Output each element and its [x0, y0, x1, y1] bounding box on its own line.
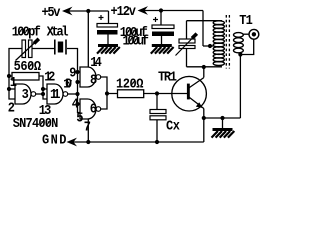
svg-text:GND: GND [42, 132, 67, 148]
resistor R2 120 ohm [118, 90, 144, 98]
junction collector at tank [202, 65, 206, 69]
junction pin 1 [7, 87, 11, 91]
svg-text:T1: T1 [239, 12, 253, 28]
svg-text:8: 8 [90, 72, 97, 88]
wire Cx top lead [156, 94, 158, 110]
wire +5v rail [66, 10, 109, 12]
svg-text:14: 14 [90, 54, 102, 70]
junction gate B out [75, 92, 79, 96]
wire +12v drop to C2 [160, 11, 162, 26]
junction gate outputs to R2 [105, 91, 109, 95]
wire +5v rail drop to C1 [108, 11, 110, 24]
junction +12v / C2 [159, 8, 163, 12]
capacitor C4 tank trimmer [176, 34, 197, 56]
wire Cx bottom lead [156, 120, 158, 143]
wire secondary top to jack [243, 33, 250, 35]
capacitor C3 100pf variable [16, 39, 39, 61]
slashed zeros overlay [19, 28, 138, 126]
junction pin 12 [41, 87, 45, 91]
svg-text:+12v: +12v [111, 4, 137, 20]
wire pin 14 supply drop [87, 11, 89, 67]
svg-text:Cx: Cx [166, 118, 180, 134]
svg-text:SN7400N: SN7400N [13, 116, 59, 132]
junction Cx at GND rail [155, 140, 159, 144]
wire TR1 emitter down to rail [203, 118, 205, 142]
wire gate C output [101, 77, 118, 94]
wire GND rail [72, 141, 204, 143]
svg-text:TR1: TR1 [158, 69, 177, 85]
ground under C2 [151, 44, 174, 54]
junction pin 4 [75, 102, 79, 106]
svg-text:5: 5 [76, 110, 83, 126]
transistor TR1 NPN [172, 76, 207, 118]
arrow +12v supply [138, 6, 149, 15]
junction coil tap [208, 44, 212, 48]
svg-text:+5v: +5v [42, 5, 61, 21]
svg-text:10: 10 [63, 76, 72, 92]
capacitor C2 100uf electrolytic [152, 17, 174, 36]
wire crystal feedback node (node B) [67, 49, 80, 113]
wire C2 to ground [161, 36, 163, 44]
svg-text:7: 7 [84, 119, 91, 135]
wire pin 10 stub [78, 81, 81, 83]
output jack J1 [249, 29, 259, 39]
svg-text:3: 3 [22, 86, 29, 102]
gate B (NAND 2/4 SN7400N, pins 12,13,11) [47, 84, 68, 104]
junction +5v / pin14 [86, 9, 90, 13]
wire R2 to TR1 base [144, 93, 187, 95]
wire C3 to crystal Y1 [32, 48, 54, 50]
junction pin 7 at GND rail [86, 140, 90, 144]
wire tank top [187, 20, 223, 22]
ground at emitter net [212, 128, 235, 138]
wire secondary bottom down [239, 55, 241, 119]
junction pin 10 [75, 80, 79, 84]
capacitor Cx [150, 110, 166, 120]
gate A (NAND 1/4 SN7400N, pins 1,2,3) [15, 84, 36, 104]
junction gate A out [41, 92, 45, 96]
transformer T1 primary winding [213, 21, 224, 66]
wire +12v rail [141, 10, 204, 12]
wire coil tap [203, 45, 214, 47]
svg-text:12: 12 [44, 69, 55, 85]
arrow GND [67, 138, 78, 147]
wire ground stub at emitter net [222, 118, 224, 128]
wire pin 9 stub [78, 71, 81, 73]
junction emitter net [202, 116, 206, 120]
wire R1 left lead [9, 75, 12, 77]
junction secondary bottom [238, 52, 242, 56]
wire gate A output [36, 93, 43, 95]
crystal Y1 Xtal [55, 40, 66, 55]
junction emitter ground stub [220, 116, 224, 120]
wire jack return [240, 39, 253, 55]
svg-text:Xtal: Xtal [47, 24, 69, 40]
svg-text:120Ω: 120Ω [116, 76, 144, 92]
wire +12v down to coil tap [202, 11, 204, 47]
svg-text:6: 6 [90, 101, 97, 117]
transformer T1 secondary winding [234, 33, 244, 53]
svg-text:100pf: 100pf [12, 24, 41, 40]
wire pin 7 to ground rail [87, 119, 89, 142]
wire tank bottom [187, 66, 223, 68]
junction pin 9 [75, 70, 79, 74]
gate D (NAND 4/4 SN7400N, pins 4,5,6) [80, 99, 101, 119]
svg-text:11: 11 [50, 86, 61, 102]
gate C (NAND 3/4 SN7400N, pins 9,10,8) [80, 67, 101, 87]
arrow +5v supply [62, 7, 73, 16]
wire gate D output [101, 94, 107, 110]
svg-text:2: 2 [8, 100, 15, 116]
svg-text:100uf: 100uf [123, 33, 150, 49]
wire C4 bottom lead [186, 49, 188, 67]
capacitor C1 100uf electrolytic [97, 15, 118, 35]
wire C4 top lead [186, 21, 188, 39]
wire pin 1 stub [9, 88, 15, 90]
svg-text:1: 1 [10, 74, 17, 90]
wire pin 12 stub [43, 88, 47, 90]
resistor R1 560 ohm [12, 73, 39, 81]
wire emitter to secondary return [204, 117, 241, 119]
wire R1 right lead to gate B input node [39, 76, 47, 99]
svg-text:560Ω: 560Ω [14, 58, 42, 74]
junction R1 left [7, 74, 11, 78]
wire gate B output [68, 93, 78, 95]
wire gate A input node (node A) [9, 49, 22, 100]
wire TR1 collector up to tank [203, 67, 205, 78]
wire pin 4 stub [78, 103, 81, 105]
junction Cx top [155, 91, 159, 95]
wire C1 to ground [107, 35, 109, 45]
transformer T1 core [226, 15, 229, 69]
ground under C1 [97, 44, 120, 54]
